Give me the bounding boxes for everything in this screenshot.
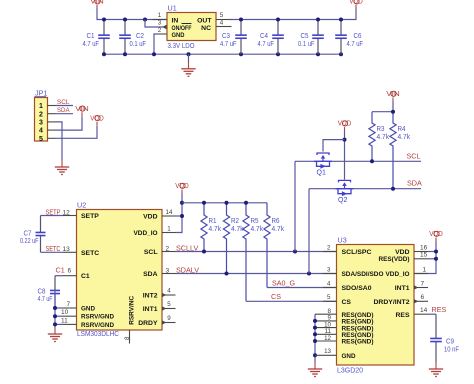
svg-text:9: 9 [167,315,171,322]
U3 pin 9 stub [315,320,337,322]
svg-text:7: 7 [421,280,425,287]
svg-text:INT1: INT1 [143,306,158,313]
svg-text:INT1: INT1 [395,285,410,292]
svg-text:10 nF: 10 nF [444,345,459,354]
power symbol VIN (JP1) [75,104,89,117]
transistor Q2 [336,180,354,196]
svg-text:3: 3 [327,266,331,273]
svg-text:4: 4 [39,128,43,135]
svg-text:0.22 uF: 0.22 uF [20,236,39,245]
U3 pin 8 stub [315,313,337,315]
junction R3/SCL [370,159,374,163]
svg-text:2: 2 [166,246,170,253]
U1 pin 4 stub (NC) [216,26,232,28]
wire U1 GND to ground rail [154,34,158,54]
wire net CS [246,300,337,302]
capacitor C1 [98,20,110,55]
ground symbol (U3) [308,362,322,377]
svg-text:C1: C1 [81,273,90,280]
JP1 pin 5 stub [48,137,56,139]
svg-text:4.7 uF: 4.7 uF [258,39,275,48]
U2 pin 11 stub [63,323,77,325]
svg-text:VDD: VDD [90,113,104,122]
label JP1 [35,89,48,98]
svg-text:VDD: VDD [143,214,157,221]
svg-text:U1: U1 [168,4,177,13]
svg-text:CS: CS [342,299,352,306]
U2 pin 14 stub [162,215,176,217]
svg-text:0.1 uF: 0.1 uF [298,39,315,48]
wire net SETP [41,215,64,217]
svg-text:GND: GND [342,353,356,360]
wire JP1 pin 5 to VDD [56,126,98,138]
svg-text:VDD_IO: VDD_IO [134,230,158,237]
svg-text:SCL/SPC: SCL/SPC [342,249,372,256]
wire SDALV riser [308,189,310,274]
svg-text:11: 11 [61,317,68,324]
U2 pin 1 stub [162,232,176,234]
label R1 [209,216,222,233]
capacitor C8 [50,276,60,308]
svg-text:4.7k: 4.7k [272,224,285,233]
label R6 [272,216,285,233]
ground symbol (regulator) [181,54,195,76]
JP1 pin 1 stub [48,105,56,107]
wire pullup rail [182,202,267,204]
svg-text:1: 1 [423,266,427,273]
U2 pin 13 stub [63,251,77,253]
svg-text:16: 16 [420,244,428,251]
svg-text:RES(GND): RES(GND) [342,339,374,346]
svg-text:U2: U2 [77,201,86,210]
svg-text:10: 10 [61,309,69,316]
U3 pin 4 stub [323,287,337,289]
junctions SCLLV [202,250,297,254]
svg-text:GND: GND [81,306,95,313]
svg-text:0.1 uF: 0.1 uF [130,39,147,48]
svg-text:JP1: JP1 [35,89,47,98]
junctions U2 ground bus [53,306,57,326]
U3 pin 5 stub [323,300,337,302]
U2 pin 10 stub [63,315,77,317]
svg-text:NC: NC [201,25,211,32]
wire VIN pullup rail [372,102,393,112]
wire JP1 pin 3 to ground [56,122,63,160]
svg-text:2: 2 [39,111,43,118]
svg-text:VDD: VDD [175,181,189,190]
svg-text:4: 4 [220,20,224,27]
U3 pin 1 stub [414,273,428,275]
U1 pin name ON/OFF [172,24,192,32]
wire net SCLLV [176,251,337,253]
resistor R6 [264,203,270,288]
svg-text:SETP: SETP [81,213,99,220]
svg-text:RSRV/GND: RSRV/GND [81,322,114,329]
capacitor C5 [312,20,324,55]
svg-text:12: 12 [63,209,71,216]
label C5 [298,31,315,48]
wire net SCL (JP1 pin 1) [56,105,74,107]
U2 pin 9 stub [162,320,176,324]
capacitor C3 [235,20,247,55]
svg-text:1: 1 [167,225,171,232]
junctions VDD rail [239,18,343,22]
U2 pin 7 stub [63,307,77,309]
svg-text:2: 2 [158,27,162,34]
label C4 [258,31,275,48]
label R2 [231,216,244,233]
junctions U3 VDD [434,250,438,261]
svg-text:3: 3 [166,268,170,275]
svg-text:SDO/SA0: SDO/SA0 [342,285,372,292]
label C7 [20,229,39,246]
ground symbol (U2) [48,327,62,342]
junctions ground rail [102,52,343,56]
JP1 pin 2 stub [48,113,56,115]
ground symbol (JP1) [55,160,69,175]
svg-text:4.7k: 4.7k [377,132,390,141]
IC U3 L3GD20 [337,245,415,366]
label C6 [347,31,364,48]
wire U3 pin16 [428,251,436,253]
resistor R5 [243,203,249,301]
power symbol VDD (top right, cut off) [349,0,363,8]
svg-text:SDA: SDA [407,179,422,188]
wire U3 pin15 [428,258,436,260]
svg-text:3: 3 [158,20,162,27]
junction gate branch [343,138,347,142]
label C1 [83,31,100,48]
svg-text:SA0_G: SA0_G [272,278,295,287]
svg-text:14: 14 [166,209,173,216]
svg-text:RES(VDD): RES(VDD) [379,256,410,263]
IC U2 LSM303DLHC [77,210,163,331]
svg-text:LSM303DLHC: LSM303DLHC [77,329,119,338]
svg-text:15: 15 [420,252,428,259]
svg-text:4.7 uF: 4.7 uF [38,294,53,303]
wire JP1 pin 4 to VIN [56,117,83,131]
svg-text:Q2: Q2 [338,197,347,204]
wire U2 GND pins [55,307,63,309]
svg-text:4: 4 [167,287,171,294]
U2 pin 4 stub [162,293,176,297]
svg-text:4.7k: 4.7k [231,224,244,233]
junctions U3 ground bus [313,319,317,357]
resistor R4 [390,112,396,189]
svg-text:SDA: SDA [143,271,157,278]
svg-text:4.7 uF: 4.7 uF [220,39,237,48]
power symbol VIN (pullups) [386,89,400,102]
wire net SDA (high side) [309,188,421,190]
JP1 pin 4 stub [48,129,56,131]
power symbol VDD (U3) [429,229,443,242]
U3 pin 16 stub [414,251,428,253]
wire net SETC [41,251,64,253]
svg-text:SDA/SDI/SDO: SDA/SDI/SDO [342,271,384,278]
svg-text:VIN: VIN [90,0,104,6]
svg-text:4.7 uF: 4.7 uF [83,39,100,48]
junctions VIN rail [102,18,147,22]
svg-text:INT2: INT2 [143,293,158,300]
U3 pin 14 stub [414,313,428,315]
wire net SCL (high side) [295,160,421,162]
resistor R2 [223,203,229,274]
svg-text:8: 8 [124,336,131,340]
wire VIN to rail [97,9,167,20]
wire U2 pin11 [55,323,63,325]
U3 pin 13 stub [315,354,337,356]
svg-text:CS: CS [271,292,281,301]
svg-text:RSRV/NC: RSRV/NC [128,296,135,325]
U1 pin 1 stub [153,19,168,21]
svg-text:SCL: SCL [407,151,421,160]
U2 pin 8 stub (bottom) [129,330,131,344]
svg-text:VIN: VIN [75,104,89,113]
svg-text:4.7 uF: 4.7 uF [347,39,364,48]
svg-text:SDA: SDA [57,107,70,114]
svg-text:14: 14 [420,307,428,314]
capacitor C9 [430,314,442,362]
capacitor C7 [36,216,46,253]
svg-text:RES: RES [432,305,447,314]
wire VDD output rail [230,9,356,20]
svg-text:1: 1 [158,12,162,19]
svg-text:SCL: SCL [57,99,70,106]
svg-text:13: 13 [324,348,331,355]
label R3 [377,124,390,141]
label C8 [38,287,53,304]
svg-text:12: 12 [324,335,331,342]
wire net C1 [55,275,63,277]
svg-text:L3GD20: L3GD20 [337,366,363,375]
svg-text:13: 13 [63,246,71,253]
ground symbol (C9) [429,362,443,377]
svg-text:C1: C1 [56,266,65,275]
U3 pin 3 stub [323,273,337,275]
svg-text:3: 3 [39,120,43,127]
junctions U2 VDD [180,201,184,218]
U3 pin 6 stub [414,299,428,303]
U2 pin 12 stub [63,215,77,217]
label C2 [130,31,147,48]
svg-text:DRDY: DRDY [138,320,158,327]
label R5 [251,216,264,233]
transistor Q1 [314,153,332,169]
label C9 [444,337,459,354]
svg-text:7: 7 [67,301,71,308]
wire U3 RES(GND) bus [314,314,316,362]
svg-text:VIN: VIN [386,89,400,98]
junctions SDALV [225,272,312,276]
svg-text:1: 1 [39,103,43,110]
svg-text:VDD_IO: VDD_IO [386,271,410,278]
power symbol VDD (JP1) [90,113,104,126]
wire U2 pin10 [55,315,63,317]
svg-text:IN: IN [172,17,179,24]
wire VDD to U2 VDD/VDD_IO [176,194,183,233]
junction R4 top [391,110,395,114]
power symbol VDD (gates) [338,119,352,132]
svg-text:OUT: OUT [197,17,212,24]
wire VDD to U3 [414,242,436,274]
svg-text:SCL: SCL [144,249,158,256]
U3 pin 11 stub [315,333,337,335]
U3 pin 10 stub [315,327,337,329]
U1 pin 5 stub [216,19,232,21]
svg-text:4.7k: 4.7k [209,224,222,233]
svg-text:GND: GND [172,32,185,39]
wire SCLLV riser [294,161,296,251]
U2 pin 6 stub [63,275,77,277]
svg-text:SETC: SETC [81,250,99,257]
svg-text:4: 4 [327,280,331,287]
svg-text:U3: U3 [338,236,347,245]
svg-text:6: 6 [68,268,72,275]
svg-text:3.3V LDO: 3.3V LDO [168,41,195,50]
wire U2 ground bus [54,289,56,327]
svg-text:Q1: Q1 [317,170,326,177]
U3 pin 2 stub [323,251,337,253]
svg-text:5: 5 [167,301,171,308]
connector JP1 [35,98,48,142]
resistor R3 [369,112,375,162]
label C3 [220,31,237,48]
power symbol VDD (U2) [175,181,189,194]
U3 pin 15 stub [414,258,428,260]
wire net RES [428,313,436,315]
svg-text:6: 6 [421,294,425,301]
U2 pin 5 stub [162,306,176,310]
wire VDD to Q1/Q2 gates [344,131,346,180]
svg-text:VDD: VDD [429,229,443,238]
svg-text:5: 5 [220,12,224,19]
capacitor C2 [119,20,131,55]
label R4 [398,124,411,141]
U1 pin 3 arrow [162,25,167,29]
wire U2 VDD pin [176,215,183,217]
wire Q1 gate [323,140,345,152]
wire net SDALV [176,273,337,275]
wire net SA0_G [267,287,337,289]
capacitor C4 [272,20,284,55]
resistor R1 [201,203,207,252]
wire net SDA (JP1 pin 2) [56,113,74,115]
U3 pin 12 stub [315,340,337,342]
capacitor C6 [335,20,347,55]
svg-text:VDD: VDD [395,249,409,256]
voltage regulator U1 [167,13,216,41]
U1 pin 2 stub [158,33,167,35]
svg-text:4.7k: 4.7k [398,132,411,141]
wire U1 ON/OFF enable [145,20,163,28]
svg-text:4.7k: 4.7k [251,224,264,233]
U2 pin 3 stub [162,273,176,275]
U3 pin 7 stub [414,285,428,289]
svg-text:VDD: VDD [349,0,363,6]
svg-text:DRDY/INT2: DRDY/INT2 [374,299,410,306]
svg-text:2: 2 [327,244,331,251]
JP1 pin 3 stub [48,121,56,123]
svg-text:VDD: VDD [338,119,352,128]
ground rail (top section) [104,53,341,55]
U2 pin 2 stub [162,251,176,253]
svg-text:5: 5 [327,294,331,301]
svg-text:5: 5 [39,136,43,143]
junctions pullup rail [202,201,248,205]
power symbol VIN (top left, cut off) [90,0,104,8]
svg-text:ON/OFF: ON/OFF [172,25,192,32]
svg-text:RSRV/GND: RSRV/GND [81,314,114,321]
junction R4/SDA [391,187,395,191]
svg-text:RES: RES [396,312,410,319]
